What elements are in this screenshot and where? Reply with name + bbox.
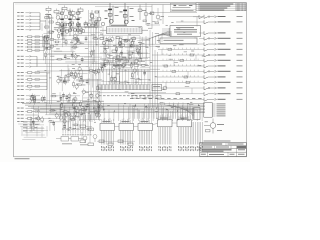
output buffer U213: [204, 92, 243, 96]
output buffer U211: [204, 81, 243, 85]
output buffer U24: [204, 42, 243, 46]
IC U30: [100, 118, 115, 151]
output buffer U26: [204, 53, 243, 57]
center bus vertical: [89, 10, 99, 120]
top right stage Q5: [143, 8, 164, 24]
power transformer T1: [56, 135, 97, 146]
output buffer U25: [204, 48, 243, 52]
output wires to right column: [104, 17, 204, 100]
top vertical stage Q1: [105, 3, 119, 26]
output buffer U210: [204, 75, 243, 79]
rectifier cluster: [80, 125, 94, 146]
amplifier cluster A1: [42, 18, 102, 64]
input connector group J5: [17, 95, 40, 103]
output buffer U29: [204, 70, 243, 74]
wire rails left-to-center: [37, 44, 199, 71]
amplifier cluster A6: [104, 36, 150, 60]
output buffer U20: [204, 15, 243, 19]
test point lines: [62, 115, 91, 136]
delay line surroundings: [94, 20, 140, 45]
output buffer U214: [204, 98, 243, 102]
gates near U10 output: [146, 3, 203, 26]
driver transistor Q30: [204, 119, 224, 134]
last IC pin bundle: [192, 122, 203, 151]
upper mid component row: [54, 20, 95, 34]
ladder feed wire: [95, 68, 160, 70]
output buffer U28: [204, 64, 243, 68]
output buffer U212: [204, 86, 243, 90]
bus junction dots: [61, 103, 199, 112]
border frame: [14, 3, 247, 157]
title block: [200, 143, 247, 157]
IC feed comb: [130, 104, 195, 119]
output buffer U23: [204, 37, 243, 41]
bottom center filter row: [97, 140, 135, 145]
inter-IC link wires: [115, 123, 178, 127]
top rail wire: [58, 5, 200, 7]
input connector group J4: [17, 72, 47, 91]
vertical chain stage V1: [60, 9, 80, 37]
diagonal fan to P3: [160, 103, 200, 120]
input connector group J6: [17, 108, 39, 122]
top vertical stage R9: [138, 5, 163, 28]
output buffer U27: [204, 59, 243, 63]
IC U32: [138, 118, 153, 151]
reference designator labels: [44, 11, 201, 121]
main bus: [22, 104, 205, 113]
sweep block U11: [160, 38, 197, 44]
rail pin ticks: [163, 48, 198, 83]
bottom left label rows: [23, 122, 44, 132]
bus label row: [130, 97, 202, 100]
parts list note: [204, 140, 231, 143]
relay K1: [106, 53, 134, 66]
bus interface boxes: [132, 96, 161, 99]
ladder caption row: [99, 94, 150, 97]
amplifier cluster A5: [79, 100, 105, 122]
output buffer U22: [204, 31, 243, 35]
input connector group J2: [17, 36, 50, 51]
left vertical bus: [47, 13, 52, 104]
IC U34: [177, 114, 192, 151]
IC U31: [119, 118, 134, 151]
IC U33: [158, 114, 173, 151]
wire fan into U10: [146, 32, 172, 48]
pre-amp Q3 Q4: [90, 10, 101, 26]
sheet number text: [15, 157, 30, 160]
ladder feed drops: [100, 69, 148, 85]
input connector group J3: [17, 56, 37, 68]
amplifier cluster A3: [31, 93, 80, 131]
input connector group J1: [17, 12, 46, 31]
extra text speckle: [44, 14, 207, 123]
revision table: [196, 3, 246, 11]
gate generator U10: [162, 26, 201, 37]
amplifier cluster A2: [57, 64, 104, 103]
amplifier cluster A4: [100, 58, 150, 84]
output buffer U21: [204, 20, 243, 24]
resistor array RN1: [98, 84, 167, 92]
output connector P2: [204, 103, 226, 118]
rail components: [162, 48, 196, 94]
vertical feed bus right of center: [150, 30, 158, 108]
left bus component chain: [45, 17, 53, 38]
top vertical stage Q2: [120, 3, 135, 26]
mid-center stage cluster: [100, 36, 148, 66]
bottom left misc wires: [18, 124, 48, 139]
decoupling cluster top-left: [45, 5, 83, 20]
bus vertical drops: [60, 104, 202, 121]
approval stamp box: [170, 3, 196, 12]
delay line DL1: [100, 25, 148, 34]
